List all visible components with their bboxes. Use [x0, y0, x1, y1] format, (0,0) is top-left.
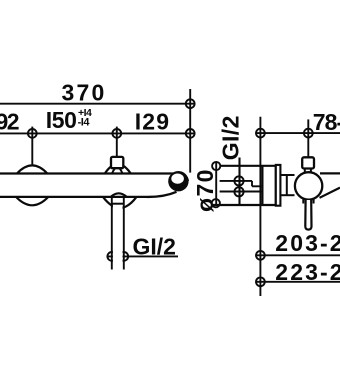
svg-text:223-24: 223-24: [275, 259, 340, 285]
neck nut line: [286, 175, 288, 195]
svg-text:I50: I50: [46, 107, 77, 133]
mixer body circle: [295, 172, 322, 199]
hose pipe right: [123, 198, 125, 270]
svg-text:78-8: 78-8: [313, 109, 340, 135]
handle ball: [168, 171, 188, 191]
escutcheon top line: [220, 165, 276, 167]
spout bottom diagonal: [320, 188, 340, 198]
dimension line 92/150/129: [0, 132, 195, 134]
dimension line 78 (right view): [256, 132, 340, 134]
valve bulge bottom arc: [16, 197, 48, 205]
svg-text:92: 92: [0, 109, 19, 135]
knob neck left: [304, 169, 306, 173]
extension line right end: [189, 89, 191, 173]
dimension line 223-2: [256, 281, 340, 283]
svg-text:370: 370: [62, 80, 107, 106]
extension line handle centerline: [307, 119, 309, 156]
valve bulge top arc: [17, 165, 47, 173]
o70 circle marker bottom: [212, 199, 220, 207]
marker at x=260: [256, 129, 265, 138]
marker at right end of 370 line: [186, 99, 195, 108]
escutcheon right edge / G1/2 leader: [238, 158, 240, 206]
marker node at x=116.8: [112, 129, 121, 138]
flange: [276, 165, 281, 206]
knob neck right: [310, 169, 312, 173]
inlet pipe lower: [220, 191, 263, 193]
hose nipple collar line: [112, 203, 124, 205]
handle knob square: [302, 157, 314, 168]
o70 dimension vertical: [215, 163, 217, 205]
neck top line: [280, 174, 294, 176]
extension line valve centerline: [31, 127, 33, 166]
svg-text:203-24: 203-24: [275, 230, 340, 256]
o70 circle marker top: [212, 162, 220, 170]
lever ear right: [313, 200, 315, 204]
lever ear left: [302, 200, 304, 204]
hose nipple dome: [111, 193, 127, 197]
body left edge: [261, 166, 263, 205]
svg-text:GI/2: GI/2: [218, 115, 244, 160]
marker inlet lower: [234, 187, 243, 196]
diverter bulge top arc: [105, 164, 131, 174]
hose nipple white interior: [113, 198, 123, 268]
marker hose pipe right: [119, 252, 128, 261]
body right edge: [275, 166, 277, 205]
lever rod: [305, 200, 311, 230]
marker at x=308: [304, 129, 313, 138]
inlet pipe step: [251, 181, 253, 186]
hose pipe left: [111, 198, 113, 270]
dimension line 203-2: [256, 254, 340, 256]
extension line diverter centerline: [116, 127, 118, 157]
diverter bulge bottom arc: [103, 197, 137, 208]
leader line G1/2: [107, 255, 178, 257]
neck bottom line: [280, 194, 294, 196]
body bottom edge: [0, 192, 177, 197]
escutcheon bottom line: [212, 204, 276, 206]
marker 203 line: [256, 251, 265, 260]
marker inlet upper: [234, 176, 243, 185]
marker node at x=32: [28, 129, 37, 138]
marker node at x=190: [186, 129, 195, 138]
marker 223 line: [256, 277, 265, 286]
diverter dome top arc: [112, 167, 123, 173]
diverter knob square: [111, 157, 123, 168]
svg-text:I29: I29: [135, 109, 171, 135]
inlet pipe stub: [252, 185, 261, 187]
inlet pipe upper: [220, 180, 252, 182]
dimension line 370: [0, 103, 195, 105]
spout top line: [320, 172, 340, 174]
svg-text:-I4: -I4: [78, 117, 91, 129]
extension/dimension vertical through side view: [259, 117, 261, 296]
handle ball highlight: [171, 174, 184, 184]
marker hose pipe left: [107, 252, 116, 261]
body top edge: [0, 174, 188, 182]
